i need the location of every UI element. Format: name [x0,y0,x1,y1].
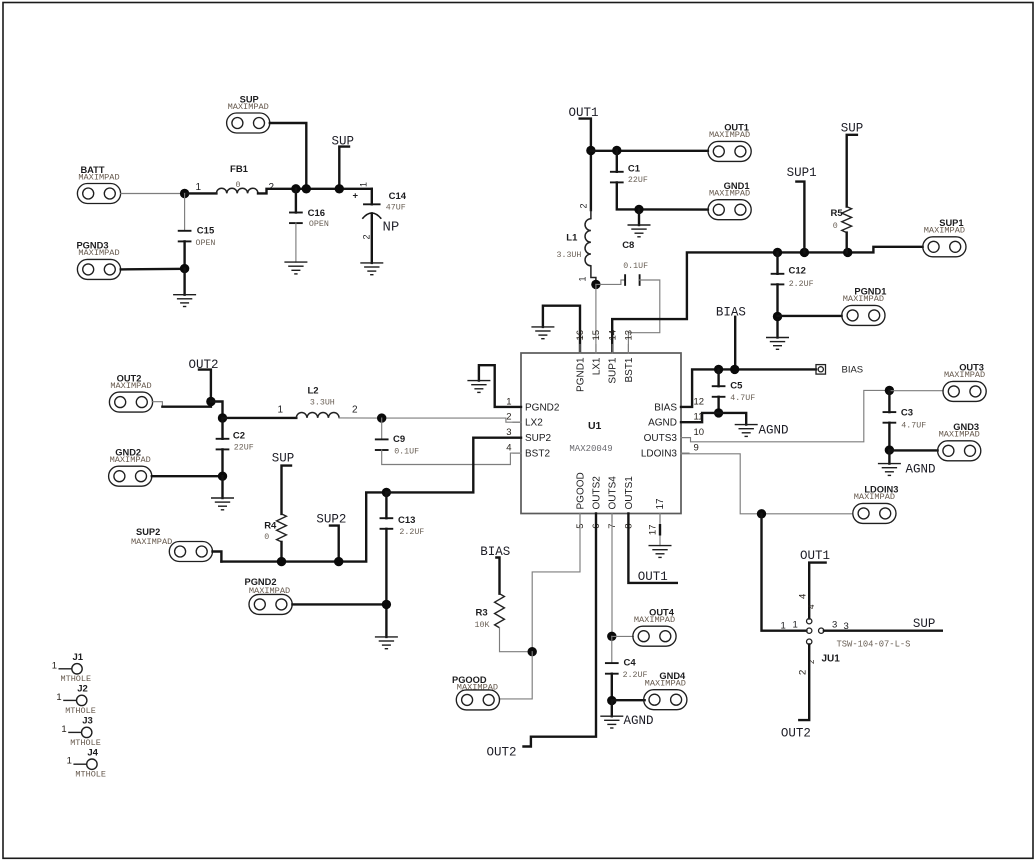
net label OUT1 pin8 [638,570,668,584]
svg-text:C13: C13 [398,515,415,526]
svg-text:SUP2: SUP2 [525,433,552,444]
pin 1 label L1 [578,276,588,281]
svg-text:2.2UF: 2.2UF [399,528,424,537]
wire OUT3 pad [889,390,943,392]
pad OUT2 [109,373,162,412]
svg-text:FB1: FB1 [230,164,249,175]
wire JU1 pin1 riser [762,514,807,631]
mounting hole J1 [52,652,91,684]
svg-text:MAXIMPAD: MAXIMPAD [228,102,269,112]
op-amp U1 body [521,353,681,514]
svg-text:J3: J3 [82,716,93,727]
svg-text:1: 1 [67,756,72,767]
svg-text:MAXIMPAD: MAXIMPAD [131,537,172,547]
svg-text:OPEN: OPEN [196,239,216,248]
svg-text:1: 1 [56,692,61,703]
svg-text:LX2: LX2 [525,418,543,429]
wire LX2 to pin2 [339,418,521,422]
capacitor C4 [606,636,648,700]
svg-text:47UF: 47UF [386,203,406,212]
pad SUP top [227,94,307,189]
svg-text:C5: C5 [730,380,743,391]
net label SUP JU1 [913,617,936,631]
svg-text:R4: R4 [264,520,277,531]
connector JU1 pin4 [807,619,812,624]
capacitor C16 [290,189,329,262]
svg-text:SUP2: SUP2 [136,527,160,537]
svg-text:AGND: AGND [648,418,677,429]
capacitor C15 [179,194,216,269]
svg-text:MTHOLE: MTHOLE [75,770,106,780]
pin 3 labels JU1 [832,620,849,633]
svg-text:TSW-104-07-L-S: TSW-104-07-L-S [837,639,911,649]
resistor R3 [475,594,533,652]
node BATT junction [180,189,189,198]
wire OUT2 pad to node [162,402,211,407]
connector JU1 pin2 [807,639,812,644]
capacitor C8 [596,240,660,353]
net label SUP right [841,122,864,207]
inductor L1 [557,210,596,284]
svg-text:0: 0 [264,533,269,542]
svg-text:10K: 10K [475,621,490,630]
node C16 junction [291,184,300,193]
label JU1 [822,654,841,665]
svg-text:C2: C2 [233,431,245,442]
capacitor C13 [381,492,425,637]
pin 1 labels JU1 [781,620,798,632]
net label SUP [332,135,355,189]
wire PGND1 pin16 [543,306,580,353]
wire GND4 pad [612,699,645,701]
svg-text:14: 14 [607,330,618,341]
node R4 junction [277,557,286,566]
wire AGND pin11 [681,413,719,422]
svg-text:OUTS4: OUTS4 [608,476,619,510]
ground C4 [601,716,623,728]
resistor R4 [264,514,286,562]
wire OUTS1 pin8 [628,514,676,583]
svg-text:MTHOLE: MTHOLE [61,674,92,684]
net label SUP mid [272,452,295,514]
wire OUT4 pad [612,635,634,637]
net label AGND C3 [906,463,936,477]
ground C16 [285,262,307,274]
capacitor C14 [353,182,407,263]
ground C13 [376,637,398,649]
net label OUT2 [189,358,219,402]
inductor L2 [296,385,339,418]
svg-text:4.7UF: 4.7UF [901,422,926,431]
node C5 junction [714,365,723,374]
svg-text:22UF: 22UF [234,443,254,452]
pad PGND3 [76,241,184,280]
pad GND3 [938,422,981,461]
svg-text:1: 1 [358,182,368,187]
node SUP2 label junction [334,557,343,566]
svg-text:SUP1: SUP1 [608,357,619,384]
svg-text:OPEN: OPEN [309,220,329,229]
svg-text:J4: J4 [87,748,98,759]
svg-text:1: 1 [61,724,66,735]
svg-text:MAXIMPAD: MAXIMPAD [709,130,750,140]
svg-text:MAXIMPAD: MAXIMPAD [843,294,884,304]
svg-text:10: 10 [694,427,705,438]
pad OUT3 [943,363,986,402]
testpoint BIAS [816,365,863,376]
svg-text:OUT2: OUT2 [487,746,517,760]
node LX1 junction [591,280,600,289]
U1 right pin labels [641,396,704,459]
node GND4 junction [607,696,616,716]
ground C14 [361,263,383,275]
svg-text:12: 12 [694,396,705,407]
wire FB1 to bus [258,189,372,194]
node GND1 junction [634,205,643,225]
ground PGND3 [174,295,196,307]
svg-text:AGND: AGND [624,714,654,728]
svg-text:JU1: JU1 [822,654,841,665]
pin 2 label L1 [579,203,589,208]
wire BIAS pin12 [681,369,816,407]
pad PGND2 [245,577,387,614]
node SUP label junction [335,184,344,193]
svg-text:C8: C8 [622,240,634,251]
node C1 junction [612,146,621,155]
net label OUT1 top [569,106,599,210]
svg-text:C12: C12 [789,265,806,276]
wire pin17 ground [659,514,661,546]
svg-text:MAXIMPAD: MAXIMPAD [645,679,686,689]
pad SUP2 [131,527,221,562]
svg-text:4: 4 [506,443,511,454]
capacitor C5 [713,369,756,413]
svg-text:MAXIMPAD: MAXIMPAD [924,226,965,236]
node OUT2 label junction [206,397,215,406]
node PGND2 junction [382,600,391,609]
svg-text:OUT2: OUT2 [781,727,811,741]
U1 top pin labels [575,330,635,392]
wire PGOOD pin5 [532,514,580,652]
ground C3 [879,464,901,476]
svg-text:22UF: 22UF [628,176,648,185]
ground pin17 [649,546,671,558]
svg-text:MAXIMPAD: MAXIMPAD [249,586,290,596]
svg-text:BST1: BST1 [624,357,635,382]
pin 1 label L2 [278,405,284,416]
svg-text:SUP: SUP [913,617,936,631]
svg-text:L1: L1 [566,233,578,244]
mounting hole J4 [67,748,106,780]
svg-text:1: 1 [793,620,798,631]
node SUP1 label junction [800,248,809,257]
mounting hole J3 [61,716,100,748]
pad OUT4 [633,608,676,647]
svg-text:7: 7 [607,524,618,529]
pad GND4 [644,671,687,710]
svg-text:C1: C1 [628,164,641,175]
svg-text:R3: R3 [476,608,488,619]
net label AGND right [759,424,789,438]
svg-text:OUTS2: OUTS2 [592,476,603,510]
svg-text:MAXIMPAD: MAXIMPAD [110,381,151,391]
pin 4 labels JU1 [798,594,816,609]
svg-text:3: 3 [832,620,837,631]
wire PGND1 pad [778,315,842,317]
U1 left pin labels [506,396,560,459]
wire OUT2 node link [211,402,223,419]
U1 bottom pin labels [575,472,666,535]
svg-text:MAXIMPAD: MAXIMPAD [78,172,119,182]
svg-text:3.3UH: 3.3UH [310,399,335,408]
svg-text:0: 0 [236,181,241,190]
net label SUP1 [787,166,817,252]
wire PGND2 pin1 [479,365,521,407]
svg-text:BIAS: BIAS [654,402,677,413]
svg-text:PGOOD: PGOOD [576,472,587,509]
svg-text:17: 17 [655,498,666,510]
svg-text:MAXIMPAD: MAXIMPAD [854,492,895,502]
ground C12 [767,338,789,350]
pad BATT [77,165,184,204]
U1 pin stubs [513,345,689,523]
pin 1 label FB1 [196,182,202,193]
wire OUTS4 pin7 [611,514,613,637]
svg-text:5: 5 [575,524,586,529]
svg-text:OUTS3: OUTS3 [644,433,678,444]
wire GND3 pad [889,449,937,451]
node C13 junction top [382,488,391,497]
wire L2 pin1 [223,417,297,419]
svg-text:NP: NP [383,220,400,236]
svg-text:1: 1 [278,405,284,416]
node OUT3 junction [885,386,894,395]
svg-text:2: 2 [269,182,275,193]
capacitor C9 [376,418,521,464]
svg-text:0: 0 [833,222,838,231]
svg-text:BIAS: BIAS [716,306,746,320]
svg-text:SUP: SUP [841,122,864,136]
svg-text:C15: C15 [197,226,215,237]
svg-text:BIAS: BIAS [842,365,864,376]
wire LDOIN3 pin9 [681,454,852,514]
svg-text:2: 2 [506,412,511,423]
svg-text:17: 17 [647,525,658,536]
wire SUP2 bus [221,492,386,561]
svg-text:PGND1: PGND1 [576,357,587,392]
node GND3 junction [885,445,894,463]
svg-text:1: 1 [781,621,786,632]
node SUP-pad junction [302,184,311,193]
svg-text:R5: R5 [831,208,844,219]
inductor FB1 [216,164,258,193]
svg-text:0.1UF: 0.1UF [394,448,419,457]
svg-text:J2: J2 [77,684,88,695]
net label OUT2 JU1 [781,727,811,741]
net label BIAS R3 [480,545,510,594]
svg-text:C4: C4 [624,658,637,669]
pad LDOIN3 [853,485,899,524]
svg-text:2.2UF: 2.2UF [789,280,814,289]
node AGND junction [714,408,723,417]
wire JU1 pin3 SUP [824,630,942,632]
capacitor C1 [611,151,708,210]
connector JU1 pin1 [807,628,812,633]
svg-text:C9: C9 [393,434,405,445]
svg-text:3.3UH: 3.3UH [557,251,582,260]
ground AGND pin11 [735,425,757,437]
svg-text:4: 4 [807,604,816,609]
node OUT1 junction [586,146,595,155]
svg-text:MTHOLE: MTHOLE [70,738,101,748]
wire OUT1 bus [591,150,708,152]
capacitor C12 [772,252,814,337]
wire OUTS3 pin10 [681,390,889,441]
svg-text:+: + [353,191,359,202]
pin 2 label FB1 [269,182,275,193]
pad GND1 [708,181,751,220]
wire FB1 pin1 [185,192,217,194]
net label BIAS [716,306,746,370]
svg-text:U1: U1 [588,420,602,432]
svg-text:1: 1 [196,182,202,193]
svg-text:AGND: AGND [759,424,789,438]
svg-text:MAXIMPAD: MAXIMPAD [939,430,980,440]
wire OUTS2 pin6 [524,514,597,747]
svg-text:9: 9 [694,443,699,454]
ground GND2 [212,498,234,510]
net label AGND C4 [624,714,654,728]
svg-text:MAXIMPAD: MAXIMPAD [457,683,498,693]
svg-text:MAXIMPAD: MAXIMPAD [944,370,985,380]
svg-text:C14: C14 [389,191,407,202]
wire SUP1 pin14 [612,247,922,353]
svg-text:MTHOLE: MTHOLE [65,706,96,716]
svg-text:2: 2 [361,234,371,239]
svg-text:PGND2: PGND2 [525,402,560,413]
label TSW-104-07-L-S [837,639,911,649]
svg-text:2: 2 [798,670,809,675]
svg-text:C16: C16 [308,208,325,219]
capacitor C2 [217,418,254,476]
svg-text:4.7UF: 4.7UF [730,394,755,403]
svg-text:MAXIMPAD: MAXIMPAD [634,615,675,625]
svg-text:OUTS1: OUTS1 [624,476,635,510]
pad GND2 [109,448,223,487]
svg-text:MAXIMPAD: MAXIMPAD [709,189,750,199]
wire PGOOD pad [499,652,532,699]
pad OUT1 [708,123,751,162]
wire LX1 stub pin15 [595,284,597,353]
connector JU1 pin3 [819,628,824,633]
svg-text:13: 13 [624,330,635,341]
svg-text:2: 2 [579,203,589,208]
wire AGND ground [719,413,747,425]
svg-text:0.1UF: 0.1UF [623,262,648,271]
node LDOIN3 junction [757,509,766,518]
node GND2 junction [218,472,227,499]
ground pin16 [532,327,554,339]
node PGND3 junction [180,264,189,295]
net label OUT2 pin6 [487,746,517,760]
node C9 junction [377,413,386,422]
svg-text:OUT1: OUT1 [638,570,668,584]
node C12 junction top [773,248,782,257]
net label SUP2 [316,513,346,562]
net label OUT1 JU1 [800,549,830,618]
svg-text:C3: C3 [901,408,913,419]
mounting hole J2 [56,684,95,716]
svg-text:LDOIN3: LDOIN3 [641,449,678,460]
node OUT4 junction [607,632,616,641]
ground pin1 [468,381,490,393]
svg-text:1: 1 [52,660,57,671]
pad PGOOD [452,675,500,710]
node BIAS label junction [730,365,739,374]
svg-text:MAXIMPAD: MAXIMPAD [110,455,151,465]
svg-text:16: 16 [575,330,586,341]
pad SUP1 [923,218,966,257]
svg-text:SUP1: SUP1 [787,166,817,180]
svg-text:J1: J1 [73,652,84,663]
svg-text:2: 2 [352,405,358,416]
pin 2 label L2 [352,405,358,416]
node PGOOD junction [528,647,537,656]
resistor R5 [831,207,852,253]
svg-text:15: 15 [591,330,602,341]
ground GND1 [628,225,650,237]
wire SUP2 to pin3 [386,438,521,493]
pad PGND1 [842,287,887,326]
svg-text:4: 4 [798,594,809,599]
node LX2 junction left [218,413,227,422]
svg-text:LX1: LX1 [592,357,603,375]
pin 2 labels JU1 [798,659,816,675]
svg-text:MAX20049: MAX20049 [569,444,612,454]
svg-text:MAXIMPAD: MAXIMPAD [78,248,119,258]
node R5 junction [843,248,852,257]
svg-text:1: 1 [578,276,588,281]
svg-text:L2: L2 [308,385,319,396]
capacitor C3 [884,390,927,450]
svg-text:SUP: SUP [272,452,295,466]
svg-text:3: 3 [506,427,511,438]
node PGND1 junction [773,312,782,321]
svg-text:OUT1: OUT1 [800,549,830,563]
svg-text:AGND: AGND [906,463,936,477]
svg-text:BST2: BST2 [525,449,550,460]
wire JU1 pin2 OUT2 [799,644,809,720]
